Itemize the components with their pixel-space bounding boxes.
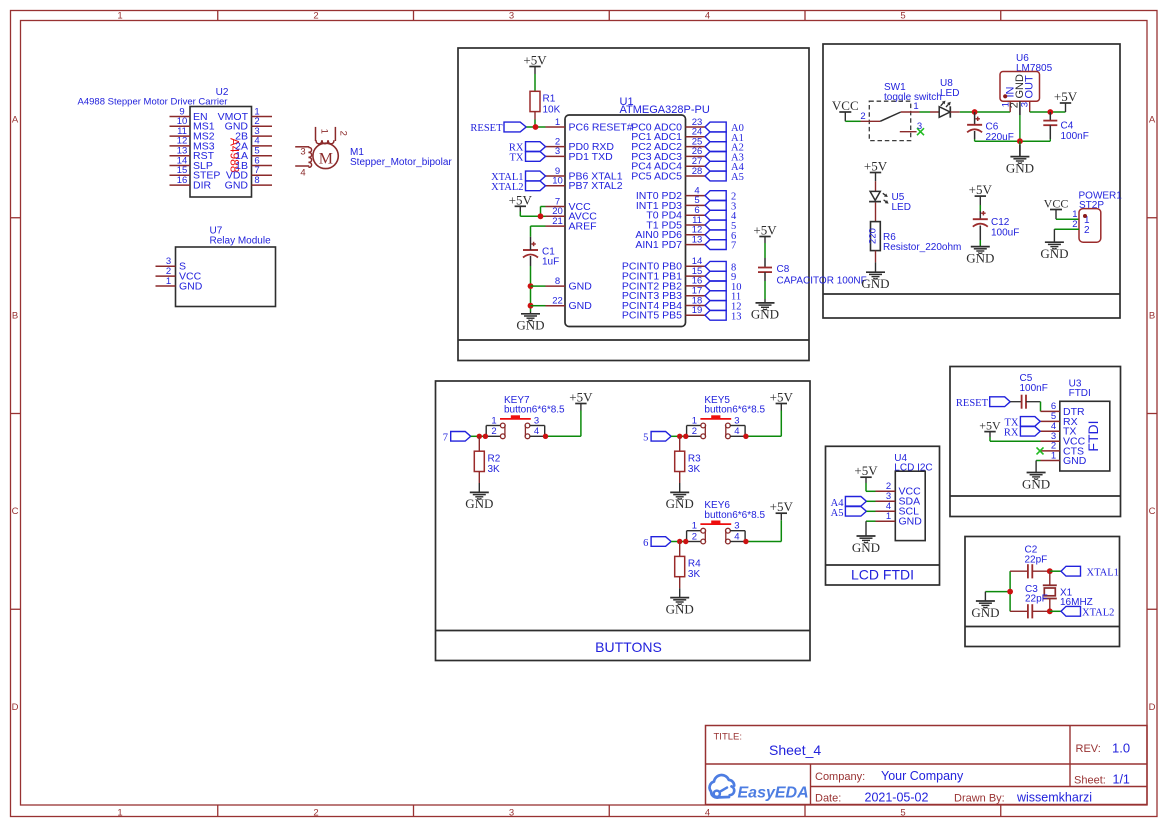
wire [1050, 570, 1061, 572]
title block [706, 726, 1148, 805]
svg-text:Date:: Date: [815, 793, 841, 805]
net flag 12 [705, 301, 742, 313]
wire [471, 435, 487, 437]
block box LCD FTDI [826, 446, 940, 585]
power +5V (KEY5) [770, 390, 794, 411]
svg-text:GND: GND [179, 280, 203, 292]
wire [531, 226, 546, 237]
svg-text:7: 7 [443, 433, 448, 444]
net flag A4 [705, 161, 745, 173]
svg-text:7: 7 [731, 241, 736, 252]
svg-text:3: 3 [555, 146, 560, 157]
svg-text:+5V: +5V [753, 223, 777, 238]
net flag XTAL2 (crystal) [1061, 606, 1114, 618]
svg-text:GND: GND [666, 601, 694, 616]
svg-text:A5: A5 [831, 508, 844, 519]
svg-text:2: 2 [313, 10, 318, 21]
svg-text:PB7 XTAL2: PB7 XTAL2 [569, 180, 623, 192]
power +5V (KEY7) [569, 390, 593, 411]
svg-text:2: 2 [692, 531, 697, 542]
svg-text:GND: GND [225, 180, 249, 192]
junction [1047, 109, 1053, 115]
resistor R1 10K [530, 91, 561, 119]
capacitor C12 100uF [973, 211, 1020, 240]
svg-text:GND: GND [971, 605, 999, 620]
wire [534, 120, 536, 128]
ground (U3) [1022, 461, 1050, 492]
logo EasyEDA [710, 775, 809, 802]
junction [677, 434, 682, 439]
resistor R3 3K [675, 436, 701, 483]
svg-text:10: 10 [552, 176, 563, 187]
svg-text:3: 3 [534, 415, 539, 426]
power VCC (SW1) [832, 98, 859, 121]
svg-text:1: 1 [886, 511, 891, 522]
svg-text:+5V: +5V [1054, 89, 1078, 104]
svg-text:Sheet_4: Sheet_4 [769, 742, 821, 758]
ic U7 Relay Module [156, 226, 276, 307]
wire [1026, 402, 1041, 412]
power +5V (U4) [854, 463, 878, 483]
net flag 11 [705, 291, 741, 303]
net flag 4 [705, 210, 737, 222]
wire [545, 411, 581, 437]
svg-text:TX: TX [510, 152, 524, 163]
svg-text:5: 5 [900, 807, 905, 818]
junction [683, 434, 688, 439]
svg-text:VCC: VCC [1044, 197, 1069, 211]
svg-text:LM7805: LM7805 [1016, 63, 1053, 74]
wire [1009, 571, 1011, 611]
wire [745, 520, 781, 541]
svg-text:GND: GND [751, 307, 779, 322]
wire [531, 305, 546, 307]
wire [520, 207, 545, 217]
svg-text:4: 4 [734, 531, 739, 542]
svg-text:GND: GND [899, 516, 923, 528]
svg-text:button6*6*8.5: button6*6*8.5 [704, 510, 765, 521]
svg-text:Resistor_220ohm: Resistor_220ohm [883, 242, 961, 253]
svg-text:GND: GND [666, 496, 694, 511]
connector POWER1 ST2P [1072, 191, 1122, 243]
net flag RESET (FTDI) [956, 397, 1010, 409]
svg-text:PC5 ADC5: PC5 ADC5 [631, 170, 682, 182]
svg-text:PD1 TXD: PD1 TXD [569, 151, 614, 163]
block box FTDI [950, 367, 1121, 517]
svg-text:D: D [12, 702, 19, 713]
led U8 LED [930, 78, 960, 118]
svg-text:REV:: REV: [1076, 743, 1101, 755]
svg-text:+5V: +5V [509, 192, 533, 207]
wire [985, 591, 1010, 593]
ground (U6) [1006, 141, 1034, 175]
svg-text:GND: GND [569, 281, 593, 293]
svg-text:4: 4 [534, 426, 539, 437]
svg-text:3: 3 [1019, 102, 1030, 107]
svg-text:13: 13 [692, 234, 703, 245]
wire [764, 243, 766, 258]
svg-text:+5V: +5V [569, 390, 593, 405]
svg-text:+5V: +5V [770, 499, 794, 514]
svg-text:1: 1 [913, 101, 918, 112]
regulator U6 LM7805 [1000, 53, 1053, 141]
switch KEY5 button6*6*8.5 [687, 395, 766, 439]
power +5V (KEY6) [770, 499, 794, 520]
net flag 10 [705, 281, 742, 293]
power +5V (C12) [969, 182, 993, 205]
led U5 LED [869, 191, 911, 213]
svg-text:22pF: 22pF [1025, 594, 1048, 605]
capacitor C8 100NF [758, 258, 867, 287]
svg-text:5: 5 [900, 10, 905, 21]
svg-text:1: 1 [491, 415, 496, 426]
power +5V (C8) [753, 223, 777, 244]
svg-text:B: B [12, 311, 18, 322]
block box power [823, 44, 1120, 318]
wire [1054, 228, 1079, 230]
svg-text:Your Company: Your Company [881, 769, 964, 783]
wire [990, 437, 1041, 441]
svg-text:2021-05-02: 2021-05-02 [865, 791, 929, 805]
svg-text:+5V: +5V [969, 182, 993, 197]
ground (R3) [666, 483, 694, 511]
junction [972, 109, 978, 115]
svg-text:1: 1 [555, 117, 560, 128]
svg-text:XTAL2: XTAL2 [1082, 608, 1114, 619]
svg-text:R4: R4 [688, 559, 701, 570]
svg-text:Relay Module: Relay Module [210, 236, 272, 247]
net flag A2 [705, 142, 744, 154]
svg-text:A5: A5 [731, 172, 744, 183]
svg-text:CAPACITOR 100NF: CAPACITOR 100NF [777, 276, 867, 287]
power VCC (POWER1) [1044, 197, 1069, 220]
svg-text:+5V: +5V [854, 463, 878, 478]
svg-text:FTDI: FTDI [1085, 420, 1101, 451]
net flag A5 [705, 171, 744, 183]
svg-text:16: 16 [177, 175, 188, 186]
junction [533, 124, 539, 130]
svg-text:GND: GND [966, 250, 994, 265]
net flag TX (FTDI) [1005, 417, 1041, 429]
svg-text:3K: 3K [488, 464, 501, 475]
svg-text:C6: C6 [986, 122, 999, 133]
svg-text:AIN1 PD7: AIN1 PD7 [635, 239, 682, 251]
svg-text:Drawn By:: Drawn By: [954, 793, 1005, 805]
net flag 13 [705, 310, 742, 322]
svg-text:LED: LED [940, 88, 959, 99]
svg-text:8: 8 [555, 276, 560, 287]
svg-text:PC6 RESET#: PC6 RESET# [569, 121, 633, 133]
net flag A3 [705, 152, 744, 164]
svg-text:GND: GND [569, 300, 593, 312]
svg-text:1: 1 [117, 807, 122, 818]
svg-text:B: B [1149, 311, 1155, 322]
wire [866, 510, 875, 512]
switch KEY6 button6*6*8.5 [687, 500, 766, 544]
resistor R4 3K [675, 542, 701, 589]
svg-text:Company:: Company: [815, 771, 865, 783]
power +5V (U3) [979, 419, 1001, 437]
svg-text:100nF: 100nF [1020, 383, 1048, 394]
ic U1 ATMEGA328P-PU [546, 96, 710, 327]
svg-text:8: 8 [254, 175, 259, 186]
wire [960, 111, 1010, 113]
svg-text:4: 4 [705, 10, 710, 21]
switch KEY7 button6*6*8.5 [486, 395, 565, 439]
svg-text:DIR: DIR [193, 180, 212, 192]
ic U2 A4988 Stepper Motor Driver Carrier [78, 87, 272, 197]
wire [979, 205, 981, 211]
svg-text:1: 1 [692, 415, 697, 426]
svg-text:GND: GND [516, 318, 544, 333]
net flag TX [510, 152, 546, 164]
junction [743, 434, 748, 439]
wire [745, 411, 781, 437]
wire [671, 541, 687, 543]
net flag A4 [831, 497, 867, 509]
net flag A5 [831, 507, 867, 519]
svg-text:LED: LED [892, 202, 911, 213]
capacitor C5 100nF [1020, 373, 1048, 409]
svg-text:OUT: OUT [1024, 75, 1036, 99]
svg-text:R3: R3 [688, 454, 701, 465]
ground (C8) [751, 299, 779, 322]
svg-text:1: 1 [117, 10, 122, 21]
ground (C12) [966, 247, 994, 266]
svg-text:+5V: +5V [864, 159, 888, 174]
svg-text:button6*6*8.5: button6*6*8.5 [704, 405, 765, 416]
junction [1047, 568, 1053, 574]
wire [1056, 218, 1079, 220]
svg-text:22pF: 22pF [1025, 555, 1048, 566]
svg-text:1: 1 [692, 521, 697, 532]
svg-text:100nF: 100nF [1061, 131, 1089, 142]
wire [866, 500, 875, 502]
block box crystal [965, 537, 1120, 647]
svg-text:3: 3 [509, 807, 514, 818]
svg-text:1: 1 [318, 129, 329, 134]
svg-text:2: 2 [337, 131, 348, 136]
net flag 5 [705, 220, 736, 232]
net flag 7 [705, 240, 736, 252]
svg-text:+5V: +5V [979, 419, 1001, 433]
wire [1010, 401, 1021, 403]
power +5V (U6 out) [1054, 89, 1078, 112]
svg-text:BUTTONS: BUTTONS [595, 639, 662, 655]
ground (R6) [861, 262, 889, 291]
svg-text:XTAL2: XTAL2 [491, 182, 523, 193]
net flag 8 [705, 261, 736, 273]
svg-text:1uF: 1uF [542, 257, 559, 268]
svg-text:FTDI: FTDI [1069, 388, 1091, 399]
junction [477, 434, 482, 439]
net flag 3 [705, 201, 736, 213]
svg-text:PCINT5 PB5: PCINT5 PB5 [622, 310, 682, 322]
net flag A0 [705, 122, 744, 134]
junction [528, 283, 534, 289]
svg-text:1: 1 [166, 276, 171, 287]
svg-text:AREF: AREF [569, 221, 597, 233]
junction [538, 213, 544, 219]
svg-text:GND: GND [1022, 476, 1050, 491]
junction [1007, 589, 1013, 595]
svg-text:M: M [319, 151, 333, 168]
svg-text:28: 28 [692, 166, 703, 177]
svg-text:21: 21 [552, 216, 563, 227]
power +5V (U1 VCC) [509, 192, 533, 211]
net flag A1 [705, 132, 744, 144]
wire [531, 285, 546, 287]
svg-text:2: 2 [860, 111, 865, 122]
svg-text:C: C [1149, 506, 1156, 517]
ground (R4) [666, 588, 694, 616]
wire [764, 281, 766, 299]
svg-text:XTAL1: XTAL1 [1087, 568, 1119, 579]
svg-text:Sheet:: Sheet: [1074, 775, 1106, 787]
net flag XTAL1 (crystal) [1061, 566, 1119, 578]
net flag XTAL1 [491, 171, 545, 183]
net flag RESET [470, 122, 526, 134]
ground (POWER1) [1040, 229, 1068, 261]
ground (U4) [852, 521, 880, 555]
svg-text:5: 5 [643, 433, 648, 444]
wire [979, 240, 981, 247]
capacitor C4 100nF [1043, 112, 1089, 142]
svg-text:+5V: +5V [770, 390, 794, 405]
svg-text:3: 3 [509, 10, 514, 21]
switch SW1 toggle switch [860, 82, 941, 141]
svg-text:2: 2 [313, 807, 318, 818]
svg-text:3K: 3K [688, 569, 701, 580]
net flag RX (FTDI) [1004, 427, 1040, 439]
wire [866, 483, 876, 491]
net flag 9 [705, 271, 736, 283]
wire [866, 520, 876, 522]
svg-text:4: 4 [300, 168, 305, 179]
svg-text:2: 2 [491, 426, 496, 437]
capacitor C6 220uF [967, 112, 1014, 143]
wire [1050, 610, 1061, 612]
ic U4 LCD I2C [876, 453, 933, 541]
wire [845, 120, 860, 122]
net flag RX [509, 142, 546, 154]
svg-text:2: 2 [692, 426, 697, 437]
motor M1 Stepper_Motor_bipolar [295, 127, 452, 179]
net flag 5 [643, 432, 671, 444]
ground (crystal) [971, 592, 999, 620]
wire [920, 111, 931, 113]
svg-text:19: 19 [692, 305, 703, 316]
svg-text:R2: R2 [488, 454, 501, 465]
svg-text:+5V: +5V [523, 53, 547, 68]
svg-text:GND: GND [465, 496, 493, 511]
net flag 7 [443, 432, 471, 444]
capacitor C1 1uF [523, 237, 559, 268]
svg-text:3: 3 [734, 521, 739, 532]
svg-text:button6*6*8.5: button6*6*8.5 [504, 405, 565, 416]
svg-text:wissemkharzi: wissemkharzi [1016, 791, 1092, 805]
svg-text:GND: GND [852, 540, 880, 555]
wire [534, 74, 536, 91]
block box BUTTONS [436, 381, 811, 661]
no-connect X (CTS) [1037, 447, 1044, 454]
svg-text:13: 13 [731, 311, 742, 322]
crystal X1 16MHZ [1043, 571, 1093, 611]
svg-text:A: A [1149, 115, 1156, 126]
svg-text:2: 2 [1072, 219, 1077, 230]
power +5V (U5) [864, 159, 888, 182]
svg-text:1/1: 1/1 [1113, 773, 1130, 787]
svg-text:GND: GND [1040, 246, 1068, 261]
svg-text:RESET: RESET [956, 398, 989, 409]
net flag 2 [705, 191, 736, 203]
svg-text:1: 1 [1051, 450, 1056, 461]
svg-text:RX: RX [1004, 428, 1019, 439]
junction [677, 539, 682, 544]
svg-text:GND: GND [1006, 160, 1034, 175]
wire [526, 126, 545, 128]
ground (C1) [516, 312, 544, 333]
svg-text:RESET: RESET [470, 123, 503, 134]
block box MCU [458, 48, 809, 361]
wire [530, 266, 532, 312]
net flag XTAL2 [491, 181, 545, 193]
ground (R2) [465, 483, 493, 511]
svg-text:GND: GND [861, 276, 889, 291]
svg-text:LCD FTDI: LCD FTDI [851, 567, 914, 583]
capacitor C2 22pF [1010, 545, 1050, 579]
svg-text:TITLE:: TITLE: [714, 732, 743, 743]
junction [483, 434, 488, 439]
junction [1047, 608, 1053, 614]
wire [975, 140, 1051, 142]
wire [1036, 460, 1040, 462]
capacitor C3 22pF [1010, 584, 1050, 618]
svg-text:2: 2 [1084, 225, 1090, 236]
svg-text:100uF: 100uF [991, 228, 1019, 239]
svg-text:Stepper_Motor_bipolar: Stepper_Motor_bipolar [350, 157, 452, 168]
svg-text:VCC: VCC [832, 98, 859, 113]
svg-text:3: 3 [300, 147, 305, 158]
svg-text:R1: R1 [543, 94, 556, 105]
power +5V (R1) [523, 53, 547, 75]
ic U3 FTDI [1041, 379, 1110, 472]
svg-text:GND: GND [1063, 455, 1087, 467]
wire [671, 435, 687, 437]
svg-text:3: 3 [734, 415, 739, 426]
net flag 6 [705, 230, 736, 242]
resistor R6 220ohm [868, 222, 962, 263]
wire [1030, 111, 1066, 113]
svg-text:C12: C12 [991, 217, 1010, 228]
svg-text:22: 22 [552, 296, 563, 307]
junction [528, 303, 534, 309]
svg-text:C: C [12, 506, 19, 517]
wire [875, 181, 877, 191]
svg-text:C4: C4 [1061, 121, 1074, 132]
svg-text:10K: 10K [543, 105, 561, 116]
wire [875, 203, 877, 222]
svg-text:4: 4 [734, 426, 739, 437]
svg-text:C8: C8 [777, 264, 790, 275]
junction [1017, 138, 1023, 144]
svg-text:6: 6 [643, 538, 648, 549]
svg-text:1.0: 1.0 [1112, 741, 1130, 756]
resistor R2 3K [474, 436, 500, 483]
svg-text:EasyEDA: EasyEDA [738, 785, 809, 802]
svg-text:A: A [12, 115, 19, 126]
svg-text:3K: 3K [688, 464, 701, 475]
